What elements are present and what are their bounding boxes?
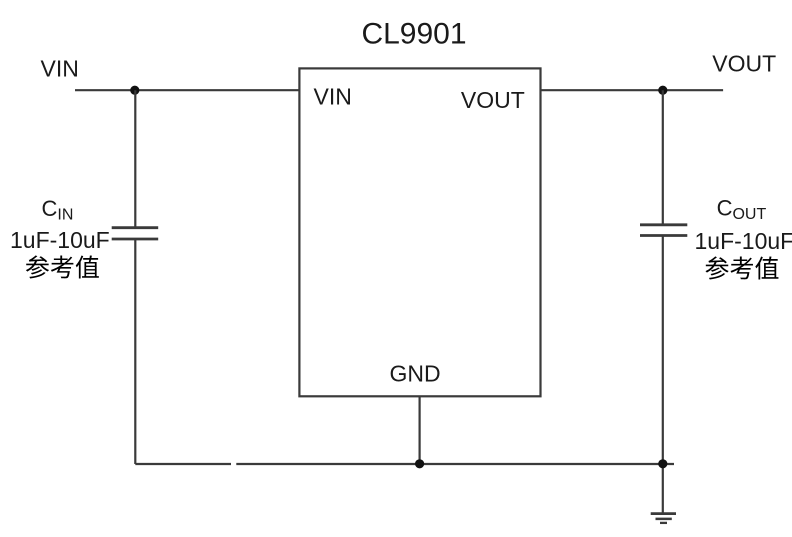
wire VOUT node down to COUT top: [662, 90, 664, 224]
svg-text:CL9901: CL9901: [361, 18, 466, 51]
wire GND pin of U1 down to rail: [419, 396, 421, 464]
wire U1 VOUT to output: [541, 89, 724, 91]
ground symbol: [651, 514, 676, 523]
wire VIN node down to CIN top: [134, 90, 136, 227]
capacitor CIN: [112, 228, 159, 239]
IC U1 CL9901 box: [299, 68, 540, 396]
svg-text:VIN: VIN: [314, 84, 352, 110]
value label 参考值 (CIN): [26, 255, 99, 278]
capacitor COUT: [640, 225, 687, 236]
wire ground rail left segment: [135, 463, 231, 465]
junction dot at VIN node: [130, 86, 139, 95]
svg-text:1uF-10uF: 1uF-10uF: [10, 227, 110, 253]
wire ground rail right segment: [236, 463, 674, 465]
svg-text:GND: GND: [390, 361, 441, 387]
svg-text:VIN: VIN: [41, 55, 79, 81]
svg-text:1uF-10uF: 1uF-10uF: [695, 228, 792, 254]
wire COUT bottom through rail to ground: [662, 236, 664, 514]
junction dot COUT on rail: [658, 459, 667, 468]
junction dot at VOUT node: [658, 86, 667, 95]
wire CIN bottom to ground rail: [134, 239, 136, 464]
svg-text:VOUT: VOUT: [461, 87, 525, 113]
junction dot GND pin on rail: [415, 459, 424, 468]
value label 参考值 (COUT): [705, 256, 778, 279]
wire VIN input to U1: [75, 89, 299, 91]
svg-text:VOUT: VOUT: [712, 51, 776, 77]
